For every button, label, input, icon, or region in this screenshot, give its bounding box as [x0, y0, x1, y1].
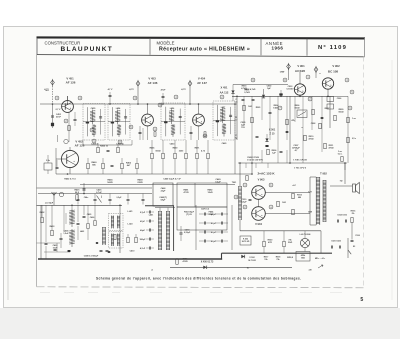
svg-text:T 902: T 902 — [320, 172, 327, 176]
svg-text:C908: C908 — [311, 123, 316, 125]
svg-text:X 502: X 502 — [249, 257, 255, 259]
svg-text:V 903: V 903 — [258, 178, 265, 182]
svg-text:AF 137: AF 137 — [197, 81, 207, 85]
svg-text:X 451: X 451 — [220, 86, 228, 90]
svg-text:V 453: V 453 — [148, 76, 156, 80]
svg-text:V 904: V 904 — [255, 222, 262, 226]
svg-text:C406: C406 — [90, 216, 95, 219]
svg-text:2%: 2% — [352, 213, 355, 215]
svg-text:560Ω: 560Ω — [107, 182, 112, 184]
svg-text:Z 15: Z 15 — [270, 133, 276, 136]
svg-text:V 901: V 901 — [297, 64, 305, 68]
svg-text:4,7kΩ: 4,7kΩ — [241, 87, 247, 90]
svg-text:12kΩ: 12kΩ — [207, 192, 212, 194]
svg-text:C916: C916 — [355, 235, 360, 237]
svg-text:4,7: 4,7 — [235, 118, 238, 121]
svg-text:ant 18pF: ant 18pF — [45, 201, 54, 204]
svg-text:180μF: 180μF — [140, 239, 147, 241]
svg-text:22μF: 22μF — [161, 190, 166, 192]
svg-text:Récepteur auto « HILDESHEIM »: Récepteur auto « HILDESHEIM » — [159, 47, 250, 53]
svg-text:70V: 70V — [241, 127, 245, 129]
svg-text:C914 C915: C914 C915 — [337, 214, 347, 217]
svg-text:C460 0,5μF 4,7 nF: C460 0,5μF 4,7 nF — [163, 178, 181, 181]
svg-text:68μF: 68μF — [161, 199, 166, 201]
svg-text:47pF: 47pF — [211, 231, 217, 234]
svg-text:L 423: L 423 — [127, 223, 133, 226]
svg-text:MODÈLE: MODÈLE — [157, 41, 175, 46]
svg-text:4,7V: 4,7V — [129, 88, 134, 91]
svg-text:1 T.BC CPU.B: 1 T.BC CPU.B — [293, 160, 307, 162]
svg-text:C906: C906 — [337, 98, 342, 100]
svg-text:0,5 s: 0,5 s — [352, 138, 356, 140]
svg-text:47pF: 47pF — [211, 240, 217, 243]
svg-text:R905: R905 — [256, 107, 261, 109]
svg-text:1/8W: 1/8W — [280, 72, 285, 74]
svg-text:L402: L402 — [80, 230, 84, 233]
svg-text:R452 0,7 k1: R452 0,7 k1 — [64, 178, 76, 181]
svg-text:AA 112: AA 112 — [220, 91, 229, 95]
svg-text:aM: aM — [309, 270, 312, 272]
svg-text:Schéma général de l'appareil,: Schéma général de l'appareil, avec l'ind… — [96, 277, 301, 281]
svg-text:4,7nF: 4,7nF — [140, 247, 146, 250]
svg-text:BC 108: BC 108 — [328, 70, 339, 74]
svg-text:4,7V: 4,7V — [181, 88, 186, 91]
svg-text:R918: R918 — [276, 257, 281, 259]
svg-text:AF 126: AF 126 — [66, 81, 76, 85]
svg-text:S3: S3 — [353, 246, 355, 248]
svg-text:0,33μF: 0,33μF — [184, 232, 191, 234]
svg-text:2%Ω: 2%Ω — [288, 242, 293, 244]
svg-text:4,7 V: 4,7 V — [108, 88, 113, 91]
svg-text:CONSTRUCTEUR: CONSTRUCTEUR — [45, 40, 81, 45]
svg-text:0,7kΩ: 0,7kΩ — [244, 92, 250, 94]
svg-text:47μF: 47μF — [140, 220, 146, 223]
svg-text:1kΩ: 1kΩ — [282, 202, 286, 204]
svg-text:560Ω: 560Ω — [156, 151, 161, 153]
svg-text:SL73 6Ω: SL73 6Ω — [248, 260, 256, 262]
svg-text:z1: z1 — [151, 270, 153, 272]
svg-text:C408 0,1/100pF: C408 0,1/100pF — [84, 255, 99, 258]
svg-text:47nF: 47nF — [161, 89, 167, 92]
svg-text:BLAUPUNKT: BLAUPUNKT — [61, 46, 114, 53]
svg-text:47Ω: 47Ω — [268, 241, 272, 244]
svg-text:0,7 V: 0,7 V — [56, 109, 61, 111]
svg-text:470Ω: 470Ω — [309, 137, 314, 140]
svg-text:470Ω: 470Ω — [182, 260, 187, 263]
svg-text:R917: R917 — [264, 257, 269, 259]
svg-text:1kΩ: 1kΩ — [248, 106, 252, 108]
svg-text:V 902: V 902 — [332, 64, 340, 68]
svg-text:AF 126: AF 126 — [75, 144, 85, 148]
svg-text:ant: ant — [46, 89, 49, 92]
svg-text:L 40 TH 924: L 40 TH 924 — [300, 233, 312, 236]
svg-text:1,5nF: 1,5nF — [63, 233, 69, 235]
svg-text:(T) 6V: (T) 6V — [186, 214, 192, 216]
svg-text:C908 C/C909: C908 C/C909 — [247, 157, 259, 159]
svg-text:6,7nF: 6,7nF — [96, 192, 102, 194]
svg-text:2×AC 153 K: 2×AC 153 K — [257, 172, 275, 176]
svg-text:1966: 1966 — [272, 46, 284, 51]
svg-text:N° 1109: N° 1109 — [318, 45, 347, 51]
svg-text:470Ω: 470Ω — [329, 146, 334, 149]
svg-text:SL73 6Ω: SL73 6Ω — [242, 241, 250, 243]
svg-text:40μF: 40μF — [140, 229, 146, 232]
svg-text:V 451: V 451 — [66, 76, 74, 80]
svg-text:X 450 01.73: X 450 01.73 — [201, 260, 214, 263]
svg-text:V 454: V 454 — [198, 76, 206, 80]
svg-text:5: 5 — [360, 297, 363, 303]
svg-text:C470 0,2: C470 0,2 — [201, 208, 210, 211]
svg-text:5,6/15V: 5,6/15V — [287, 88, 295, 90]
svg-text:47pF: 47pF — [211, 222, 217, 225]
svg-text:L 421: L 421 — [127, 210, 133, 213]
svg-text:C405: C405 — [87, 213, 92, 216]
svg-text:0,5μF: 0,5μF — [241, 201, 247, 203]
svg-text:1 T0C CPU 0: 1 T0C CPU 0 — [294, 168, 307, 170]
svg-text:0,7μF: 0,7μF — [140, 212, 146, 214]
svg-text:2N50,8: 2N50,8 — [287, 257, 293, 259]
svg-text:1 kΩ 10 mW 57%: 1 kΩ 10 mW 57% — [247, 160, 263, 162]
svg-text:AF 136: AF 136 — [148, 81, 158, 85]
svg-text:1/4kΩ: 1/4kΩ — [273, 106, 279, 109]
svg-text:05μF: 05μF — [209, 214, 215, 216]
svg-text:0,5: 0,5 — [235, 101, 238, 103]
svg-text:0,5μF: 0,5μF — [117, 197, 123, 199]
svg-text:56kΩ: 56kΩ — [295, 107, 300, 109]
svg-text:56kΩ: 56kΩ — [339, 111, 344, 113]
svg-text:MD+ − +D+: MD+ − +D+ — [315, 258, 326, 260]
svg-text:220Ω: 220Ω — [137, 182, 142, 184]
svg-text:1 av.: 1 av. — [352, 118, 357, 120]
svg-text:680: 680 — [298, 197, 301, 199]
svg-text:471Ω: 471Ω — [183, 191, 188, 194]
svg-text:10nF: 10nF — [53, 247, 58, 249]
svg-text:C921 C922: C921 C922 — [331, 241, 341, 243]
svg-text:7Ω: 7Ω — [340, 181, 343, 183]
svg-text:47nF: 47nF — [56, 116, 62, 119]
svg-text:68Ω: 68Ω — [301, 257, 305, 259]
